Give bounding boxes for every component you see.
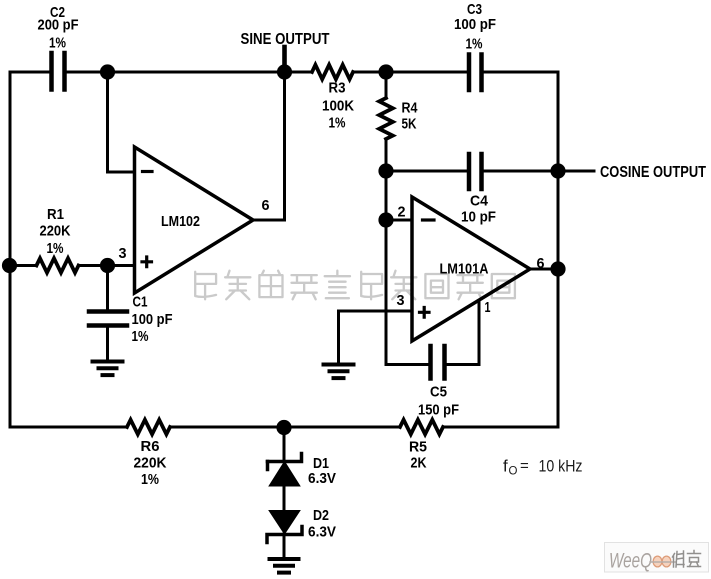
svg-text:100 pF: 100 pF bbox=[132, 311, 173, 328]
svg-text:6.3V: 6.3V bbox=[308, 470, 336, 487]
svg-text:10 kHz: 10 kHz bbox=[539, 457, 583, 476]
svg-text:10 pF: 10 pF bbox=[461, 209, 496, 226]
svg-text:C5: C5 bbox=[430, 384, 447, 401]
svg-text:1%: 1% bbox=[47, 240, 64, 257]
svg-text:2: 2 bbox=[398, 204, 406, 221]
svg-text:6: 6 bbox=[537, 255, 545, 272]
svg-text:3: 3 bbox=[397, 292, 405, 309]
svg-text:100 pF: 100 pF bbox=[454, 16, 496, 33]
svg-text:1: 1 bbox=[485, 299, 491, 316]
svg-text:COSINE OUTPUT: COSINE OUTPUT bbox=[600, 164, 706, 181]
svg-text:R3: R3 bbox=[329, 80, 346, 97]
svg-text:C4: C4 bbox=[470, 193, 489, 210]
svg-text:C1: C1 bbox=[133, 294, 148, 311]
svg-text:O: O bbox=[509, 466, 518, 478]
svg-text:WeeQ: WeeQ bbox=[609, 550, 652, 573]
svg-text:1%: 1% bbox=[132, 328, 149, 345]
svg-text:D2: D2 bbox=[313, 507, 329, 524]
svg-text:LM101A: LM101A bbox=[440, 261, 489, 278]
svg-text:R5: R5 bbox=[409, 439, 427, 456]
svg-text:LM102: LM102 bbox=[161, 213, 200, 230]
svg-text:R4: R4 bbox=[402, 100, 419, 117]
svg-text:=: = bbox=[520, 458, 529, 475]
svg-text:2K: 2K bbox=[411, 455, 427, 472]
svg-text:R6: R6 bbox=[141, 438, 160, 455]
svg-text:R1: R1 bbox=[47, 206, 64, 223]
svg-text:f: f bbox=[503, 457, 508, 476]
svg-text:5K: 5K bbox=[402, 116, 417, 133]
svg-text:6.3V: 6.3V bbox=[308, 524, 336, 541]
svg-text:200 pF: 200 pF bbox=[38, 17, 79, 34]
svg-text:1%: 1% bbox=[49, 35, 66, 52]
svg-text:6: 6 bbox=[262, 197, 270, 214]
svg-text:1%: 1% bbox=[466, 36, 483, 53]
svg-text:220K: 220K bbox=[40, 223, 71, 240]
svg-text:1%: 1% bbox=[141, 471, 159, 488]
svg-text:220K: 220K bbox=[134, 455, 167, 472]
svg-text:3: 3 bbox=[119, 245, 127, 262]
svg-text:150 pF: 150 pF bbox=[418, 402, 459, 419]
svg-text:SINE OUTPUT: SINE OUTPUT bbox=[241, 31, 330, 48]
svg-text:1%: 1% bbox=[329, 115, 346, 132]
svg-text:100K: 100K bbox=[322, 98, 354, 115]
